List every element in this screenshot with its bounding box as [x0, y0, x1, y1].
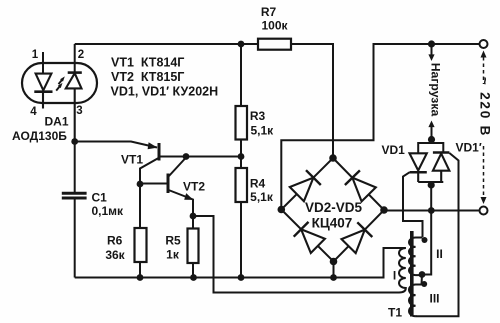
node load top: [428, 40, 435, 47]
pin 1 stub: [42, 52, 44, 74]
LED of DA1: [34, 74, 52, 109]
wire bottom bus: [75, 248, 406, 278]
svg-text:III: III: [429, 292, 439, 306]
node bus R5: [190, 274, 197, 281]
svg-text:1: 1: [32, 49, 39, 61]
svg-text:R5: R5: [165, 234, 181, 248]
svg-text:VD1′: VD1′: [456, 141, 482, 155]
resistor R4: [236, 168, 248, 202]
node VT1 base VT2 collector: [183, 153, 190, 160]
mains arrow bottom: [481, 146, 487, 204]
photodiode of DA1: [66, 73, 82, 142]
svg-text:100к: 100к: [261, 19, 288, 33]
wire top bus: [75, 43, 258, 45]
wire R6 bottom: [139, 262, 141, 278]
diode bridge outline: [281, 158, 384, 262]
transformer winding II: [409, 238, 423, 276]
node VT2 emitter R5: [190, 213, 197, 220]
wire thyristor top bracket: [418, 143, 443, 153]
diode VD3: [345, 170, 376, 201]
resistor R7: [258, 39, 291, 50]
wire R6 top: [139, 184, 141, 228]
svg-text:VT1 КТ814Г: VT1 КТ814Г: [111, 56, 184, 70]
terminal top: [480, 40, 488, 48]
node thyristor top: [428, 136, 435, 143]
wire bridge bottom to bus: [333, 262, 335, 278]
svg-text:5,1к: 5,1к: [250, 190, 274, 204]
svg-text:VT2: VT2: [183, 180, 205, 194]
wire R3 to R4: [240, 140, 242, 169]
light arrow b: [59, 76, 65, 84]
wire mains top: [281, 44, 483, 210]
svg-text:VD1, VD1′ КУ202Н: VD1, VD1′ КУ202Н: [111, 85, 219, 99]
svg-text:Нагрузка: Нагрузка: [429, 63, 443, 117]
capacitor C1: [62, 193, 87, 198]
node bus bridge: [330, 274, 337, 281]
svg-text:DA1: DA1: [45, 115, 69, 129]
node winding center tap: [419, 271, 426, 278]
wire R7 to bridge top: [291, 44, 333, 158]
resistor R3: [236, 106, 248, 140]
svg-text:~ 220 В: ~ 220 В: [478, 77, 493, 137]
wire thyristor bottom bracket: [418, 181, 443, 183]
diode VD2: [290, 170, 321, 201]
svg-text:VT2 КТ815Г: VT2 КТ815Г: [111, 70, 184, 84]
svg-text:II: II: [436, 247, 443, 261]
svg-text:R3: R3: [250, 109, 266, 123]
node pin3 junction: [71, 138, 78, 145]
svg-text:VD1: VD1: [382, 143, 406, 157]
diode VD4: [294, 222, 325, 253]
wire bridge right to terminal: [384, 210, 480, 212]
wire VD1p gate: [416, 153, 459, 316]
resistor R5: [188, 229, 199, 264]
load arrow bottom: [428, 121, 434, 140]
light arrow a: [56, 83, 62, 91]
svg-text:0,1мк: 0,1мк: [92, 204, 125, 218]
node R3 top: [238, 41, 245, 48]
node VT1 collector VT2 base: [137, 181, 144, 188]
svg-text:КЦ407: КЦ407: [312, 215, 353, 230]
polarity dot winding III: [421, 281, 427, 287]
wire C1 to bus: [74, 200, 76, 278]
node bridge top: [329, 154, 337, 162]
polarity dot winding II: [422, 237, 428, 243]
thyristor VD1: [410, 153, 427, 182]
node R3 R4: [238, 153, 245, 160]
svg-text:C1: C1: [92, 190, 108, 204]
transformer T1 core: [410, 231, 414, 317]
wire R5 bottom: [192, 263, 194, 278]
svg-text:VT1: VT1: [121, 153, 143, 167]
node bridge bottom: [330, 258, 338, 266]
svg-text:I: I: [393, 269, 396, 283]
svg-text:R6: R6: [107, 234, 123, 248]
wire R4 to bus: [240, 202, 242, 278]
svg-text:Т1: Т1: [388, 306, 402, 320]
svg-text:36к: 36к: [105, 248, 125, 262]
wire VD1 gate: [403, 172, 423, 237]
svg-text:5,1к: 5,1к: [250, 124, 274, 138]
svg-text:R4: R4: [250, 177, 266, 191]
load arrow top: [428, 44, 434, 61]
optocoupler DA1 body: [22, 63, 97, 103]
wire VT2 emitter to winding I bottom: [193, 216, 399, 293]
node bridge right: [380, 206, 388, 214]
svg-text:1к: 1к: [166, 247, 180, 261]
wire cathode to winding center tap: [422, 211, 431, 275]
thyristor VD1p: [433, 153, 450, 183]
node thyristor bottom: [428, 181, 435, 188]
wire R5 top: [192, 216, 194, 229]
pin 2 wire: [74, 44, 76, 73]
wire R3 column: [240, 44, 242, 106]
svg-text:АОД130Б: АОД130Б: [12, 129, 67, 143]
diode VD5: [342, 222, 373, 253]
wire thyristor cathode to bus: [430, 182, 432, 211]
node bus R4: [238, 274, 245, 281]
wire C1 column: [74, 142, 76, 193]
node bus R6: [137, 274, 144, 281]
mains arrow top: [481, 51, 487, 85]
node cathode bus: [428, 207, 435, 214]
transformer winding III: [409, 275, 422, 317]
svg-text:3: 3: [76, 105, 82, 117]
transistor VT1: [75, 142, 241, 185]
transistor VT2: [140, 158, 193, 217]
svg-text:2: 2: [78, 49, 84, 61]
resistor R6: [135, 228, 147, 262]
transformer winding I: [399, 248, 406, 293]
terminal bottom: [480, 207, 488, 215]
svg-text:4: 4: [30, 106, 37, 118]
svg-text:R7: R7: [261, 5, 277, 19]
node bridge left: [278, 206, 286, 214]
svg-text:VD2-VD5: VD2-VD5: [305, 200, 363, 215]
